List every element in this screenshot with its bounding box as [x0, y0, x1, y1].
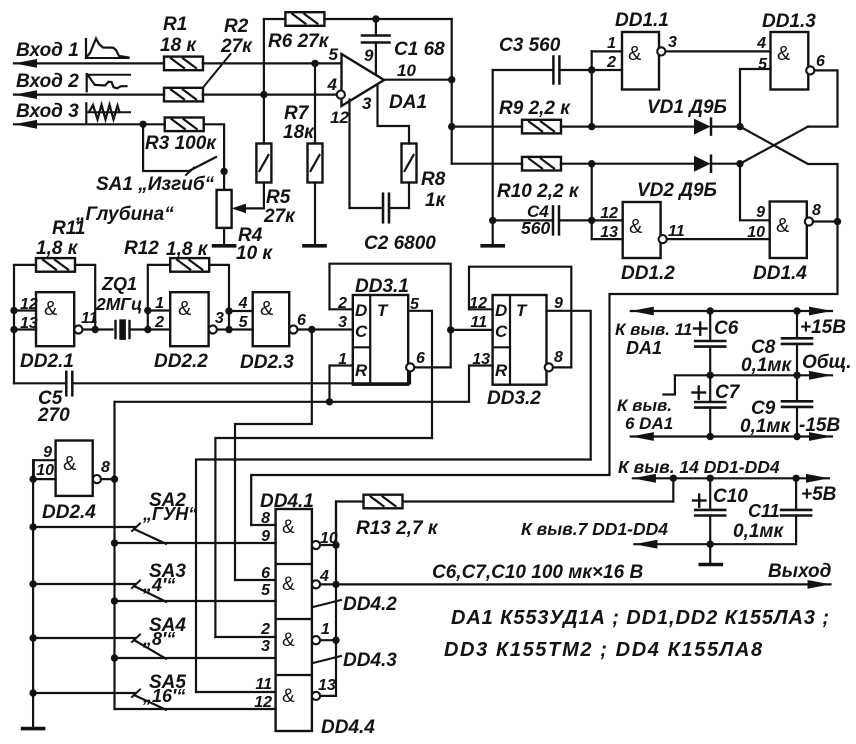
wire input row 3 with left arrow — [14, 120, 37, 129]
crystal ZQ1 — [114, 321, 116, 338]
flip-flop DD3.2 — [493, 295, 547, 385]
svg-text:+5В: +5В — [801, 484, 837, 505]
svg-text:2: 2 — [337, 295, 347, 312]
svg-text:R6 27к: R6 27к — [268, 31, 330, 52]
svg-text:DD1.2: DD1.2 — [621, 263, 675, 284]
node junction output/top feedback — [448, 76, 455, 83]
svg-text:T: T — [516, 301, 528, 320]
label DD4.2 with leader — [313, 600, 341, 607]
svg-text:R13 2,7 к: R13 2,7 к — [356, 518, 439, 539]
wire h1: DD2.3 output to DD4.2 pin 6 — [235, 330, 312, 581]
svg-text:DD3.1: DD3.1 — [355, 276, 409, 297]
switch SA5 — [33, 692, 136, 694]
svg-text:1: 1 — [321, 621, 330, 638]
svg-text:10: 10 — [747, 224, 765, 241]
svg-text:DD1.3: DD1.3 — [762, 11, 816, 32]
capacitor C8 — [796, 311, 798, 338]
svg-text:5: 5 — [758, 56, 768, 73]
svg-text:R: R — [495, 361, 508, 380]
logic gate DD2.4 — [34, 459, 56, 461]
wire -15V rail — [631, 432, 654, 441]
inversion circle DD3.1 pin 6 — [406, 363, 414, 371]
svg-text:11: 11 — [255, 676, 272, 693]
wire DD1.2 input column — [591, 164, 593, 239]
capacitor C1 — [375, 19, 377, 36]
svg-text:DD3 К155ТМ2 ; DD4 К155Л: DD3 К155ТМ2 ; DD4 К155ЛА8 — [444, 639, 764, 661]
svg-text:13: 13 — [600, 224, 618, 241]
svg-text:&: & — [282, 574, 295, 595]
node junction rail SA4 — [29, 634, 36, 641]
wire DD2.3 output to DD3.1 C — [298, 328, 353, 330]
wire DD1.4 output row — [813, 220, 838, 222]
logic gate DD2.2 — [170, 292, 208, 346]
node junction pin4 bracket — [225, 307, 232, 314]
svg-text:„Глубина“: „Глубина“ — [75, 204, 174, 225]
svg-text:0,1мк: 0,1мк — [741, 355, 792, 376]
svg-text:R3 100к: R3 100к — [145, 133, 217, 154]
wire C link DD3.1 pin6 to DD3.2 C pin 11 — [451, 329, 493, 331]
svg-text:13: 13 — [472, 351, 490, 368]
wire pin7 rail with left arrow — [634, 540, 657, 549]
node junction top wire / C1 — [372, 15, 379, 22]
svg-text:2: 2 — [260, 621, 270, 638]
wire DD1.2 output to DD1.4 pin 10 — [667, 238, 770, 240]
svg-text:3: 3 — [362, 94, 372, 113]
svg-text:R5: R5 — [266, 187, 291, 208]
resistor R6 — [285, 12, 324, 26]
flip-flop DD3.1 — [353, 295, 408, 385]
resistor R10 — [452, 163, 522, 165]
capacitor C6 — [709, 311, 711, 341]
node junction rail/C6 — [707, 307, 714, 314]
svg-text:0,1мк: 0,1мк — [740, 416, 791, 437]
inversion circle DD2.4 pin 8 — [93, 475, 101, 483]
node junction rail/C8 — [793, 307, 800, 314]
svg-text:560: 560 — [521, 218, 550, 238]
node junction common/C9 — [793, 372, 800, 379]
svg-text:К выв.7 DD1-DD4: К выв.7 DD1-DD4 — [521, 519, 668, 539]
node junction rail SA3 — [29, 580, 36, 587]
node junction R10 / VD2 / column — [588, 160, 595, 167]
svg-text:6: 6 — [416, 350, 425, 367]
svg-text:3: 3 — [338, 314, 347, 331]
svg-text:1: 1 — [155, 295, 164, 312]
svg-text:&: & — [282, 686, 295, 707]
node junction DD2.1 output — [92, 326, 99, 333]
svg-text:R12: R12 — [124, 238, 159, 259]
node junction VD1 / DD1.3 pin5 — [736, 123, 743, 130]
node junction clock/SA2 row — [111, 539, 118, 546]
svg-text:5: 5 — [239, 314, 249, 331]
wire DD3.2 feedback bracket pin8 to pin12 — [469, 267, 571, 368]
switch SA3 — [33, 583, 136, 585]
svg-text:9: 9 — [364, 46, 374, 65]
svg-text:DD2.2: DD2.2 — [154, 351, 208, 372]
svg-text:К выв. 14 DD1-DD4: К выв. 14 DD1-DD4 — [618, 457, 780, 477]
svg-text:&: & — [777, 43, 791, 65]
wire DA1 output row — [384, 79, 452, 81]
svg-text:VD2 Д9Б: VD2 Д9Б — [637, 180, 717, 201]
svg-text:DD4.2: DD4.2 — [343, 594, 397, 615]
svg-text:DD4.1: DD4.1 — [260, 491, 314, 512]
wire long feedback DD1.4 output to DD4.1 — [251, 222, 837, 526]
svg-text:1: 1 — [607, 35, 616, 52]
node junction out DD4.1 — [332, 541, 339, 548]
ground below R4 — [214, 244, 235, 248]
switch SA2 — [33, 526, 136, 528]
node junction row2 R5/R6 tap — [260, 91, 267, 98]
svg-text:С1 68: С1 68 — [394, 39, 445, 60]
node junction rail pin12 — [10, 307, 17, 314]
svg-text:0,1мк: 0,1мк — [733, 521, 784, 542]
label DD4.3 with leader — [313, 656, 341, 663]
ground below C3/C4 column — [482, 244, 503, 248]
logic gate DD1.2 — [592, 219, 623, 221]
wire output rail Выход — [336, 583, 831, 585]
diode VD2 — [694, 156, 711, 172]
wire R6/R5 left leg — [264, 18, 286, 20]
svg-text:6: 6 — [261, 565, 270, 582]
svg-text:18к: 18к — [283, 122, 315, 143]
svg-text:„ГУН“: „ГУН“ — [142, 504, 197, 524]
svg-text:R7: R7 — [284, 103, 310, 124]
svg-text:&: & — [63, 453, 77, 475]
inversion circle DD1.2 pin 11 — [659, 235, 667, 243]
svg-text:DD2.1: DD2.1 — [20, 351, 74, 372]
svg-text:Выход: Выход — [768, 561, 832, 582]
svg-text:DD2.3: DD2.3 — [240, 352, 294, 373]
waveform icon input 2 — [86, 74, 88, 91]
svg-text:С10: С10 — [713, 486, 748, 507]
svg-text:2МГц: 2МГц — [95, 294, 142, 314]
ground below C10 — [700, 563, 721, 567]
capacitor C3 — [493, 69, 554, 71]
svg-text:12: 12 — [330, 108, 349, 127]
svg-text:1: 1 — [338, 351, 347, 368]
svg-text:DD4.3: DD4.3 — [343, 650, 397, 671]
inversion circle DD1.4 pin 8 — [805, 217, 813, 225]
node junction pin5 bracket — [225, 326, 232, 333]
wire DD1.3 pin 5 input — [740, 69, 771, 127]
svg-text:4: 4 — [327, 75, 338, 94]
node junction +5/C11 — [792, 475, 799, 482]
svg-text:Общ.: Общ. — [802, 352, 852, 373]
wire wired-OR output column — [320, 544, 336, 546]
wire pin3 of DA1 to R8 — [378, 85, 410, 144]
switch SA4 — [33, 637, 136, 639]
svg-text:К выв. 11: К выв. 11 — [615, 320, 692, 339]
wire R11 right leg — [75, 265, 95, 330]
wiper arrow from R5 to R4 — [263, 183, 265, 209]
inversion circle output DD2.3 pin 6 — [289, 325, 297, 333]
node junction out DD4.3 — [332, 637, 339, 644]
svg-text:DD1.4: DD1.4 — [753, 263, 807, 284]
svg-text:„8′“: „8′“ — [142, 629, 175, 649]
node junction R9 / VD1 / column — [588, 123, 595, 130]
svg-text:3: 3 — [215, 310, 224, 327]
svg-text:Вход 2: Вход 2 — [16, 71, 79, 92]
svg-text:1,8 к: 1,8 к — [36, 238, 79, 259]
ground below rail — [23, 727, 44, 731]
inversion circle output DD2.1 pin 11 — [74, 325, 82, 333]
wire R9 node to VD1 to cross — [592, 125, 694, 127]
wire R12 left leg — [148, 265, 170, 311]
svg-text:С6: С6 — [714, 318, 739, 339]
wire +15V rail — [631, 307, 654, 316]
wire DD3.1 R input pin 1 — [330, 366, 353, 402]
ground below R7 — [304, 244, 325, 248]
wire DD3.2 D input pin 12 — [469, 308, 493, 310]
wire common rail — [675, 374, 832, 376]
svg-text:&: & — [629, 216, 643, 238]
wire clock column from reset rail through switches — [113, 402, 115, 709]
svg-text:10: 10 — [36, 462, 54, 479]
waveform icon input 3 — [85, 103, 87, 122]
svg-text:С3 560: С3 560 — [499, 35, 561, 56]
svg-text:С6,С7,С10 100 мк×16 В: С6,С7,С10 100 мк×16 В — [432, 562, 643, 583]
wire C10 ground stem — [709, 544, 711, 563]
svg-text:8: 8 — [554, 349, 563, 366]
svg-text:8: 8 — [812, 202, 821, 219]
inversion circle DD4.1 pin 10 — [312, 541, 320, 549]
svg-text:9: 9 — [756, 204, 765, 221]
node junction rail pin13 — [10, 326, 17, 333]
logic gate DD1.1 — [592, 50, 622, 52]
svg-text:R11: R11 — [52, 218, 85, 239]
node junction ZQ1/DD2.2 pin2 — [144, 326, 151, 333]
inversion circle DD4.4 pin 13 — [312, 692, 320, 700]
svg-text:9: 9 — [554, 295, 563, 312]
wire DD3.1 D input pin 2 — [330, 308, 353, 310]
node junction +5/R13 branch — [670, 475, 677, 482]
svg-text:-15В: -15В — [799, 415, 840, 436]
wire R11 left leg / DD2.1 input rail — [14, 265, 36, 383]
node junction VD2 / DD1.4 pin9 — [736, 160, 743, 167]
resistor R5 — [256, 144, 271, 183]
logic gate DD2.3 — [253, 292, 290, 346]
svg-text:6 DA1: 6 DA1 — [625, 414, 673, 433]
svg-text:27к: 27к — [220, 36, 253, 57]
svg-text:2: 2 — [154, 314, 164, 331]
wire DD3.2 pin 9 output — [547, 311, 591, 460]
wire R13 row to +5 rail — [404, 478, 674, 501]
svg-text:11: 11 — [470, 314, 487, 331]
svg-text:5: 5 — [329, 45, 339, 64]
svg-text:ZQ1: ZQ1 — [101, 274, 137, 294]
wire bracket pins 4,5 DD2.3 — [228, 311, 230, 330]
wire ground rail left — [32, 460, 34, 727]
svg-text:8: 8 — [101, 459, 110, 476]
logic gate DD2.1 — [36, 292, 74, 346]
svg-text:6: 6 — [816, 53, 825, 70]
svg-text:12: 12 — [469, 295, 487, 312]
svg-text:5: 5 — [261, 582, 271, 599]
svg-text:3: 3 — [668, 34, 677, 51]
wire DD2.4 output — [101, 478, 115, 480]
node junction clock/SA3 row — [111, 597, 118, 604]
svg-text:3: 3 — [261, 638, 270, 655]
node junction DD2.3 out / h1 tap — [308, 326, 315, 333]
wire stub to pin 6 DA1 — [663, 375, 675, 394]
resistor R12 — [170, 258, 209, 272]
wire C5 right leg up to DD3.1 pin6 — [409, 372, 411, 384]
capacitor C4 — [493, 219, 553, 221]
svg-text:„16′“: „16′“ — [142, 686, 185, 706]
wire DD4.1 pin 8 input — [251, 524, 275, 526]
svg-text:&: & — [178, 298, 192, 320]
svg-text:C: C — [355, 322, 368, 341]
svg-text:R1: R1 — [163, 14, 187, 35]
wire DD1.4 pin 9 input — [740, 164, 770, 221]
svg-text:&: & — [282, 517, 295, 538]
wire SA3 row to DD4.2 pin 5 — [115, 600, 276, 602]
svg-text:DD1.1: DD1.1 — [615, 10, 669, 31]
wire R13 left leg to output column — [336, 502, 364, 546]
svg-text:VD1 Д9Б: VD1 Д9Б — [647, 97, 727, 118]
node junction DD2.4 output — [111, 475, 118, 482]
node junction rail SA2 — [29, 523, 36, 530]
wire DD4.2 pin 6 input — [235, 579, 276, 581]
svg-text:10: 10 — [397, 61, 416, 80]
wire DD2.2 output to DD2.3 — [217, 328, 229, 330]
svg-text:13: 13 — [318, 677, 336, 694]
svg-text:18 к: 18 к — [160, 35, 197, 56]
node junction output/R9 row — [448, 123, 455, 130]
svg-text:4: 4 — [756, 35, 766, 52]
node junction C4 / column — [588, 217, 595, 224]
wire bracket pins 1,2 DD2.2 — [147, 311, 149, 330]
inversion circle DD1.3 pin 6 — [806, 66, 814, 74]
wire DD3.2 R input pin 13 — [469, 366, 493, 402]
node junction row3-R3 — [139, 121, 146, 128]
node junction -15 rail/C9 — [793, 433, 800, 440]
wire R10 node to VD2 to cross — [592, 163, 694, 165]
wire cross-coupling diagonal VD1 to DD1.4 — [740, 127, 838, 222]
wire DD1.3 output feedback to cross — [808, 70, 838, 126]
wire DD4.4 pin 11 input — [196, 691, 276, 693]
inversion circle DD4.2 pin 4 — [312, 580, 320, 588]
svg-text:&: & — [260, 298, 274, 320]
svg-text:9: 9 — [43, 444, 52, 461]
wire input row 1 with left arrow — [14, 59, 37, 68]
wire pin12 of DA1 down — [348, 100, 350, 209]
node junction SA1/R4 — [220, 168, 227, 175]
svg-text:R8: R8 — [421, 169, 446, 190]
resistor R2 — [164, 88, 203, 102]
svg-text:10 к: 10 к — [236, 243, 273, 264]
wire h3: DD3.2 pin9 to DD4.4 pin 11 — [196, 460, 591, 693]
wire DD3.2 pin8 output row — [553, 366, 571, 368]
wire DD1.1 input column — [591, 51, 593, 126]
svg-text:4: 4 — [238, 295, 248, 312]
svg-text:R9 2,2 к: R9 2,2 к — [499, 98, 571, 119]
svg-text:T: T — [377, 301, 389, 320]
resistor R3 — [165, 118, 204, 132]
svg-text:С7: С7 — [715, 382, 741, 403]
node junction pin7 rail/C10 — [707, 541, 714, 548]
inversion circle DD4.3 pin 1 — [312, 636, 320, 644]
svg-text:27к: 27к — [263, 206, 296, 227]
label pointer line from R2 label to resistor — [203, 54, 231, 88]
inversion circle DD3.2 pin 8 — [545, 363, 553, 371]
node junction +5/C10 — [707, 475, 714, 482]
wire ground column C3/C4 — [492, 70, 494, 244]
svg-text:6: 6 — [297, 312, 306, 329]
wire SA2 row to DD4.1 pin 9 — [115, 542, 276, 544]
wire DD3.1 pin 5 output — [408, 311, 432, 438]
svg-text:SA1 „Изгиб“: SA1 „Изгиб“ — [96, 174, 215, 195]
wire feedback top: R6 to output column — [324, 18, 451, 20]
svg-text:12: 12 — [600, 205, 618, 222]
svg-text:С11: С11 — [748, 501, 780, 521]
inversion circle output DD2.2 pin 3 — [209, 325, 217, 333]
capacitor C5 — [14, 382, 66, 384]
svg-text:&: & — [44, 298, 58, 320]
wire DD3.1 feedback bracket pin6 to pin2 — [330, 264, 451, 368]
svg-text:270: 270 — [37, 405, 70, 426]
svg-text:DA1: DA1 — [626, 338, 662, 358]
wire DD4.3 pin 2 input — [215, 636, 275, 638]
switch SA1 — [143, 124, 190, 171]
svg-text:8: 8 — [261, 510, 270, 527]
resistor R7 — [308, 144, 323, 183]
node junction DD1.4 output — [834, 218, 841, 225]
svg-text:R: R — [355, 361, 368, 380]
svg-text:11: 11 — [668, 223, 685, 240]
node junction rail DD2.4 pin10 — [29, 475, 36, 482]
svg-text:R10 2,2 к: R10 2,2 к — [497, 181, 580, 202]
svg-text:1,8 к: 1,8 к — [166, 239, 209, 260]
node junction C4 row / ground column — [489, 217, 496, 224]
wire SA4 row to DD4.3 pin 3 — [115, 657, 276, 659]
wire cross-coupling diagonal VD2 to DD1.3 — [740, 127, 808, 164]
wire output column vertical — [451, 19, 453, 164]
capacitor C2 — [350, 207, 383, 209]
wire SA5 row to DD4.4 pin 12 — [115, 708, 276, 710]
resistor R11 — [36, 258, 75, 272]
wire +5V rail — [633, 474, 656, 483]
svg-text:DA1 К553УД1А ; DD1,DD2 К: DA1 К553УД1А ; DD1,DD2 К155ЛА3 ; — [451, 607, 830, 629]
svg-text:&: & — [628, 43, 642, 65]
node junction clock/SA4 row — [111, 654, 118, 661]
node junction rail SA5 — [29, 689, 36, 696]
wire reset rail — [115, 401, 469, 403]
node junction ZQ1/DD2.2 pin1 — [144, 307, 151, 314]
wire R7 bottom leg to ground — [314, 183, 316, 245]
node junction pin6 column / C link — [447, 326, 454, 333]
logic gate DD1.3 — [771, 32, 809, 90]
svg-text:D: D — [355, 301, 367, 320]
wire DD3.1 pin6 output row — [414, 366, 450, 368]
node junction common/C7 — [707, 372, 714, 379]
waveform icon input 1 — [85, 39, 87, 58]
svg-text:DD3.2: DD3.2 — [487, 388, 541, 409]
capacitor C10 — [709, 478, 711, 510]
svg-text:„4′“: „4′“ — [142, 575, 175, 595]
svg-text:С2 6800: С2 6800 — [364, 233, 436, 254]
inversion circle pin 4 DA1 — [337, 91, 345, 99]
capacitor C9 — [796, 375, 798, 401]
resistor R13 — [364, 495, 403, 509]
diode VD1 — [694, 119, 711, 135]
svg-text:5: 5 — [410, 296, 420, 313]
wire DD1.1 output to DD1.3 pin 4 — [666, 50, 771, 52]
svg-text:D: D — [495, 301, 507, 320]
op-amp DA1 — [342, 54, 385, 106]
potentiometer R4 — [223, 171, 225, 190]
svg-text:C: C — [495, 322, 508, 341]
logic gate DD1.4 — [770, 202, 807, 259]
